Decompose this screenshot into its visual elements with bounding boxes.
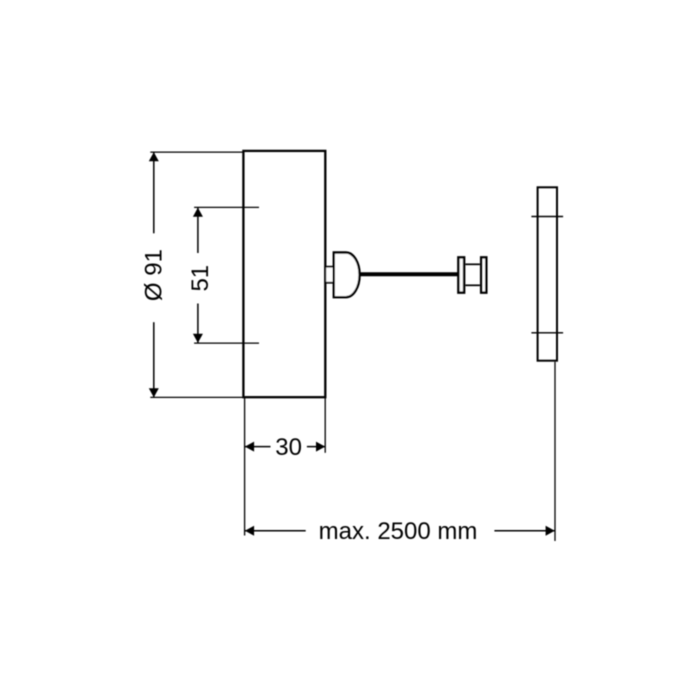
max 2500 dimension line right segment: [494, 530, 554, 532]
30 arrow left: [245, 442, 254, 452]
30 arrow right: [316, 442, 325, 452]
51 dimension line upper segment: [197, 208, 199, 253]
svg-text:Ø 91: Ø 91: [141, 249, 168, 301]
dia 91 arrow down: [149, 388, 159, 397]
max 2500 arrow left: [245, 526, 254, 536]
mirror body (side view rectangle): [243, 151, 325, 397]
pivot neck: [325, 267, 334, 283]
extension line right (for max 2500): [554, 362, 556, 541]
51 arrow up: [193, 208, 203, 217]
max 2500 dimension line left segment: [245, 530, 306, 532]
svg-text:30: 30: [275, 434, 302, 461]
bracket connector bottom: [465, 284, 480, 286]
51 dimension line lower segment: [197, 304, 199, 343]
wall plate tick bottom: [531, 332, 563, 334]
dia 91 arrow up: [149, 152, 159, 161]
dia 91 dimension line lower segment: [153, 322, 155, 397]
dia 91 dimension line upper segment: [153, 152, 155, 233]
wall bracket left flange: [458, 257, 464, 292]
wall plate tick top: [531, 216, 563, 218]
extension line right (for 30): [324, 397, 326, 453]
max 2500 arrow right: [546, 526, 555, 536]
pivot dome: [334, 253, 360, 298]
bracket connector top: [465, 263, 480, 265]
30 dimension line left segment: [245, 446, 271, 448]
extension line bottom (for dia 91): [150, 396, 243, 398]
extension line top (for dia 91): [150, 151, 243, 153]
extension line left (for 30 and max 2500): [244, 397, 246, 535]
30 dimension line right segment: [307, 446, 325, 448]
51 arrow down: [193, 334, 203, 343]
svg-text:51: 51: [187, 265, 214, 292]
wall bracket right flange: [481, 257, 486, 292]
extension line top (for 51): [194, 206, 259, 208]
connecting rod: [359, 272, 460, 276]
svg-text:max. 2500 mm: max. 2500 mm: [319, 518, 478, 545]
wall plate: [538, 187, 557, 360]
extension line bottom (for 51): [194, 342, 259, 344]
